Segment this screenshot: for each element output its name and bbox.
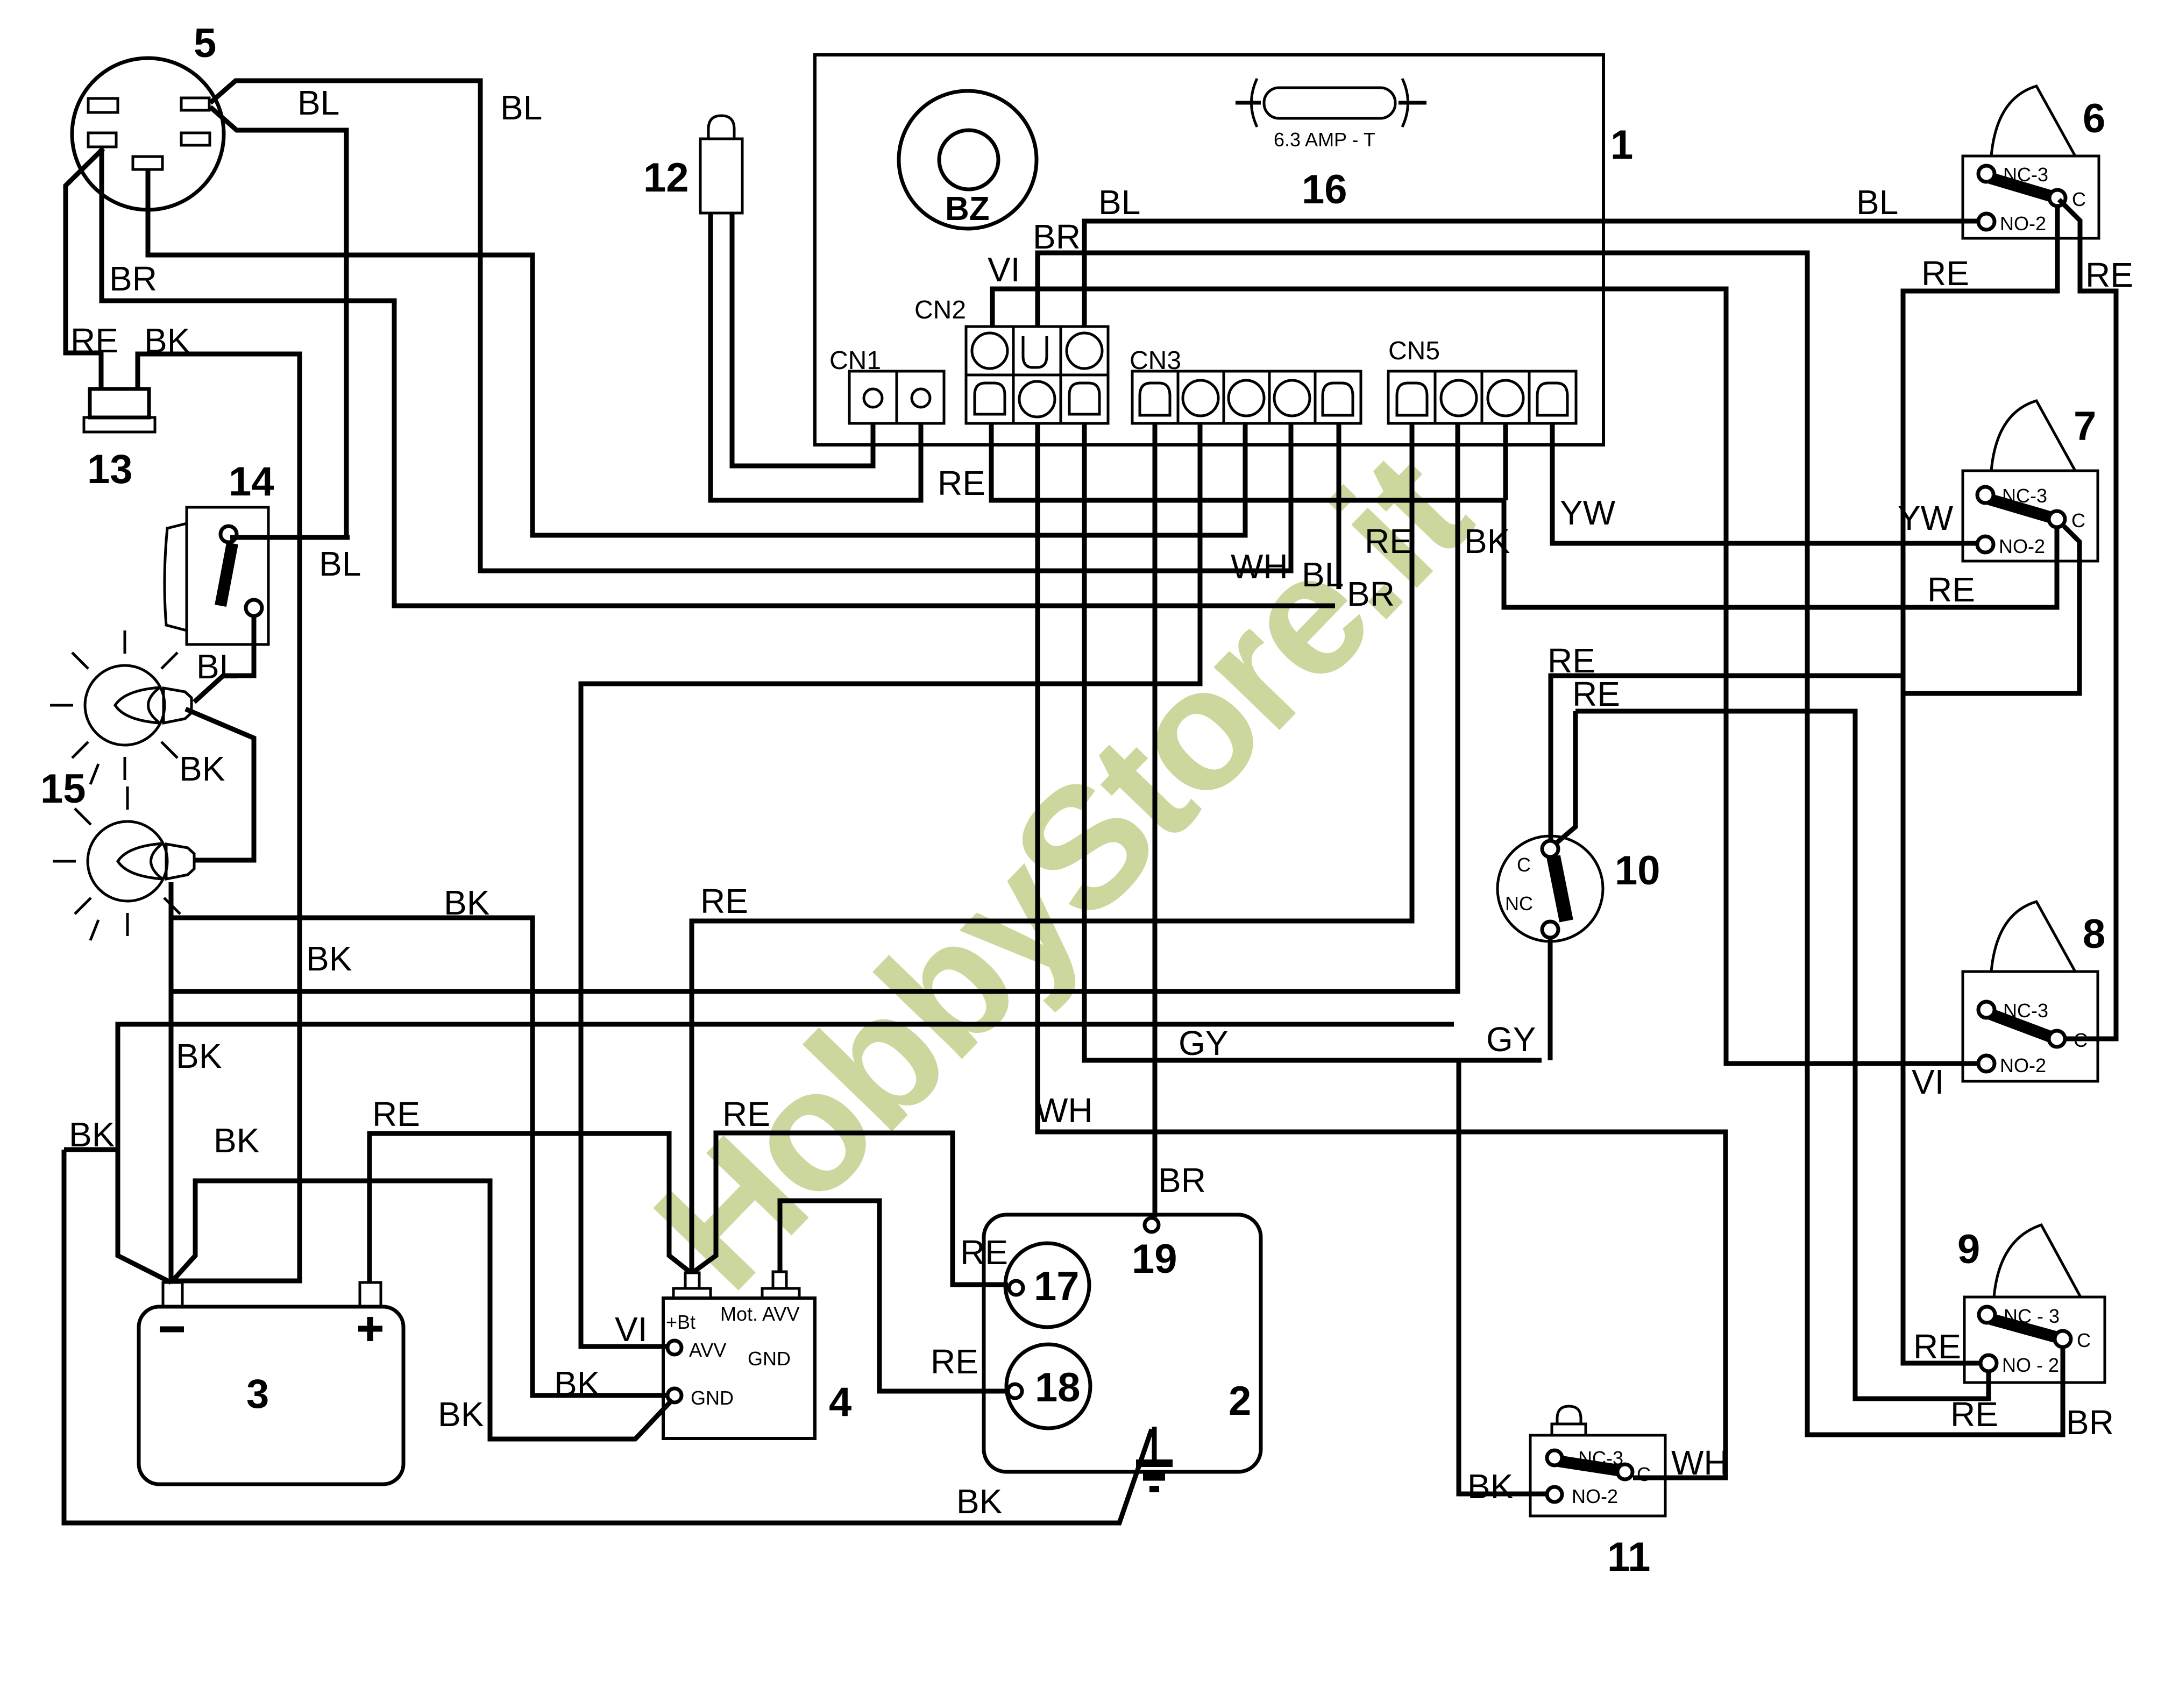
bulb 15a xyxy=(50,630,191,784)
svg-text:8: 8 xyxy=(2083,911,2105,957)
svg-text:RE: RE xyxy=(938,464,985,502)
svg-text:10: 10 xyxy=(1615,848,1660,894)
microswitch 7 xyxy=(1963,401,2098,561)
svg-text:11: 11 xyxy=(1607,1534,1650,1580)
connector CN1 xyxy=(829,346,944,423)
svg-text:BR: BR xyxy=(1033,217,1081,256)
wire BL CN2 to switch 6 xyxy=(1084,221,1978,327)
wire YW CN5 pin4 to switch 7 xyxy=(1552,423,1977,543)
svg-text:9: 9 xyxy=(1957,1227,1980,1272)
svg-text:RE: RE xyxy=(931,1342,978,1381)
svg-text:RE: RE xyxy=(1365,522,1412,561)
svg-text:GND: GND xyxy=(748,1348,791,1370)
wire RE comp5 to connector 13 xyxy=(66,148,103,388)
svg-text:RE: RE xyxy=(700,882,748,920)
svg-text:6: 6 xyxy=(2083,96,2105,141)
svg-text:NC-3: NC-3 xyxy=(2003,164,2048,186)
wire RE CN5 pin1 to relay +Bt xyxy=(692,423,1412,1272)
svg-text:16: 16 xyxy=(1302,167,1347,212)
svg-text:BK: BK xyxy=(214,1121,259,1160)
svg-text:18: 18 xyxy=(1035,1365,1081,1411)
svg-text:WH: WH xyxy=(1671,1443,1729,1482)
svg-text:BL: BL xyxy=(319,544,361,583)
wire BL comp5 lower branch xyxy=(210,107,346,540)
wire BK connector 13 down to battery xyxy=(138,354,300,1281)
wire BK battery minus to relay GND xyxy=(171,1181,672,1439)
svg-text:BL: BL xyxy=(1856,183,1898,222)
svg-text:WH: WH xyxy=(1231,547,1288,586)
wire RE CN1 to lamp 12 xyxy=(711,214,921,500)
svg-text:C: C xyxy=(2072,188,2086,210)
svg-text:YW: YW xyxy=(1898,499,1954,537)
engine unit 2 xyxy=(984,1215,1261,1472)
microswitch 9 xyxy=(1964,1225,2105,1383)
svg-text:BR: BR xyxy=(1158,1161,1206,1200)
wire BK battery minus second xyxy=(118,1024,1454,1282)
svg-text:CN1: CN1 xyxy=(829,346,881,375)
wire RE battery plus to relay +Bt xyxy=(370,1133,690,1282)
svg-text:BK: BK xyxy=(306,939,352,978)
wire VI CN2 to switch 8 xyxy=(992,289,1978,1064)
wire RE trunk to switch 7 C diagonal xyxy=(1903,526,2079,693)
svg-text:BK: BK xyxy=(1467,1467,1513,1506)
svg-text:BL: BL xyxy=(1098,183,1140,222)
wire BR CN2 to switch 9 C xyxy=(1038,253,2063,1435)
svg-text:Mot. AVV: Mot. AVV xyxy=(720,1303,799,1325)
engine ground symbol xyxy=(1136,1427,1173,1489)
svg-text:NC-3: NC-3 xyxy=(1578,1447,1623,1469)
wire RE relay Mot.AVV to point 18 xyxy=(780,1201,1007,1391)
svg-text:BK: BK xyxy=(179,749,225,788)
svg-text:BL: BL xyxy=(297,83,339,122)
wire RE switch 6 C right to switch 8 C xyxy=(2059,200,2116,1039)
svg-text:VI: VI xyxy=(1912,1062,1944,1101)
wire RE switch 6 C trunk xyxy=(1903,207,2057,1363)
svg-text:5: 5 xyxy=(194,20,216,66)
svg-text:VI: VI xyxy=(988,250,1020,289)
svg-text:BL: BL xyxy=(500,88,542,127)
wire BK bottom ground run xyxy=(64,1150,1152,1523)
svg-text:AVV: AVV xyxy=(689,1339,726,1361)
wire RE CN2 pin1 to switch 7 C xyxy=(991,423,2057,607)
svg-text:BK: BK xyxy=(554,1364,600,1403)
svg-text:RE: RE xyxy=(1950,1395,1998,1434)
svg-text:15: 15 xyxy=(40,766,86,812)
svg-text:RE: RE xyxy=(960,1233,1008,1272)
ignition sensor switch 10 xyxy=(1497,836,1603,941)
svg-text:C: C xyxy=(2071,509,2085,531)
svg-text:RE: RE xyxy=(722,1095,770,1133)
svg-text:BZ: BZ xyxy=(945,190,990,228)
svg-text:NO-2: NO-2 xyxy=(2000,212,2046,235)
svg-text:BK: BK xyxy=(444,883,489,922)
wire BR comp5 to CN3 pin5 area xyxy=(102,148,1335,606)
rocker switch 14 xyxy=(165,507,268,644)
svg-text:NC-3: NC-3 xyxy=(2003,1000,2048,1022)
svg-text:BL: BL xyxy=(196,647,238,686)
svg-text:19: 19 xyxy=(1132,1236,1177,1282)
svg-text:GY: GY xyxy=(1179,1024,1228,1062)
starter relay 4 xyxy=(663,1272,815,1438)
svg-text:RE: RE xyxy=(372,1095,420,1133)
wire RE relay +Bt to point 17 xyxy=(694,1133,1008,1285)
svg-text:4: 4 xyxy=(829,1379,851,1425)
svg-text:BR: BR xyxy=(2066,1403,2114,1442)
svg-text:3: 3 xyxy=(246,1371,269,1417)
wire GY CN2 to switch 10 xyxy=(1084,423,1550,1494)
svg-text:BR: BR xyxy=(109,259,157,298)
svg-text:13: 13 xyxy=(87,447,133,492)
svg-text:RE: RE xyxy=(1572,675,1620,713)
svg-text:BK: BK xyxy=(176,1037,222,1075)
wire BK battery minus to CN5 pin2 xyxy=(171,423,1458,1282)
svg-text:RE: RE xyxy=(1913,1327,1961,1366)
wire VI CN3 pin2 to relay AVV xyxy=(581,423,1200,1346)
svg-text:CN5: CN5 xyxy=(1388,337,1440,365)
svg-text:GY: GY xyxy=(1486,1020,1536,1059)
svg-text:NO-2: NO-2 xyxy=(2000,1054,2046,1076)
wire BK comp5 center to CN3 pin3 xyxy=(148,170,1245,535)
svg-text:NO-2: NO-2 xyxy=(1572,1485,1618,1507)
microswitch 8 xyxy=(1963,902,2098,1081)
svg-text:RE: RE xyxy=(1921,254,1969,293)
fuse 16 xyxy=(1236,79,1426,151)
svg-text:CN3: CN3 xyxy=(1130,346,1181,375)
svg-text:RE: RE xyxy=(1927,570,1975,609)
wire BL switch14 top xyxy=(230,535,350,540)
svg-text:NC - 3: NC - 3 xyxy=(2004,1305,2060,1327)
svg-text:NC-3: NC-3 xyxy=(2002,485,2047,507)
svg-text:1: 1 xyxy=(1610,122,1633,168)
wire RE switch 10 C to switch 9 NO-2 xyxy=(1554,711,1989,1399)
connector CN5 xyxy=(1388,337,1576,423)
svg-text:RE: RE xyxy=(70,321,118,360)
svg-text:C: C xyxy=(1637,1463,1651,1485)
wire BK bulb to bulb xyxy=(186,709,254,860)
svg-text:NO-2: NO-2 xyxy=(1999,535,2045,557)
svg-text:BL: BL xyxy=(1302,555,1344,594)
svg-text:12: 12 xyxy=(643,155,689,201)
wire RE trunk to switch 10 C xyxy=(1551,676,1903,840)
svg-text:6.3 AMP - T: 6.3 AMP - T xyxy=(1274,129,1375,151)
svg-text:17: 17 xyxy=(1034,1264,1080,1309)
bulb 15b xyxy=(53,786,194,940)
wire BK bulbs to relay GND xyxy=(173,918,666,1395)
svg-text:C: C xyxy=(1517,854,1531,876)
microswitch 11 xyxy=(1530,1406,1665,1516)
lamp 12 xyxy=(700,116,742,213)
svg-text:YW: YW xyxy=(1560,493,1616,532)
svg-text:CN2: CN2 xyxy=(914,296,966,324)
svg-text:NC: NC xyxy=(1505,892,1533,915)
svg-text:BK: BK xyxy=(69,1115,115,1154)
connector 13 xyxy=(84,389,155,432)
buzzer BZ xyxy=(899,91,1037,229)
battery 3 xyxy=(139,1282,403,1484)
svg-text:+Bt: +Bt xyxy=(666,1311,695,1333)
svg-text:BK: BK xyxy=(144,321,190,360)
svg-text:RE: RE xyxy=(2085,256,2133,294)
ignition switch 5 xyxy=(72,58,224,210)
svg-text:VI: VI xyxy=(615,1310,647,1349)
connector CN2 xyxy=(914,296,1108,423)
watermark HobbyStore.it xyxy=(618,416,1504,1325)
microswitch 6 xyxy=(1963,86,2099,238)
svg-text:BK: BK xyxy=(438,1395,484,1434)
svg-text:BK: BK xyxy=(1464,522,1510,561)
svg-text:WH: WH xyxy=(1035,1091,1093,1130)
svg-text:GND: GND xyxy=(691,1387,734,1409)
svg-text:7: 7 xyxy=(2074,403,2096,449)
wire WH CN2 to switch 11 C xyxy=(1038,423,1726,1478)
wire BK bulbs chain xyxy=(169,882,174,991)
svg-text:C: C xyxy=(2077,1329,2091,1351)
connector CN3 xyxy=(1130,346,1361,423)
control unit box 1 xyxy=(815,55,1603,445)
svg-text:NO - 2: NO - 2 xyxy=(2002,1354,2059,1376)
wire BL/WH comp5 to CN3 pin4 xyxy=(210,81,1291,571)
wire BR CN3 pin5 stub xyxy=(1337,423,1341,589)
svg-text:2: 2 xyxy=(1229,1378,1251,1424)
wire BL switch 14 to bulb xyxy=(194,616,254,702)
svg-text:BR: BR xyxy=(1347,575,1395,613)
wire BR CN3 pin1 to engine point 19 xyxy=(1153,423,1158,1217)
svg-text:14: 14 xyxy=(229,459,274,505)
svg-text:BK: BK xyxy=(956,1482,1002,1521)
